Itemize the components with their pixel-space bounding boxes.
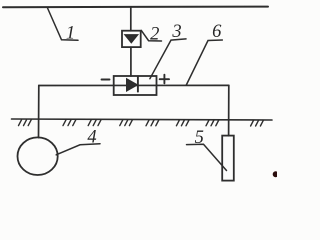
plus polarity mark	[160, 75, 169, 84]
earth electrode 5 (rod)	[222, 136, 234, 181]
arrester U2 (box with filled triangle)	[122, 31, 141, 47]
svg-text:4: 4	[87, 127, 96, 147]
ink speck bottom-right	[273, 171, 279, 177]
wire: overhead contact line (pos. 1)	[3, 6, 268, 9]
leader line for label 1	[48, 8, 79, 40]
earth hatching group 8	[251, 120, 264, 126]
earth electrode 4 (hemispherical earth plate, circle)	[17, 137, 57, 175]
minus polarity mark	[102, 79, 110, 81]
wire: left down-lead to earth electrode 4	[38, 86, 40, 138]
leader line for label 2	[141, 30, 161, 41]
svg-text:5: 5	[195, 128, 204, 148]
svg-text:2: 2	[150, 25, 159, 45]
wire: right down-lead to earth electrode 5	[228, 85, 230, 135]
leader line for label 4	[56, 144, 100, 155]
wire: dc feeder bus (pos. 6)	[39, 84, 229, 86]
earth hatching group 4	[120, 120, 133, 126]
leader line for label 3	[150, 39, 186, 79]
diode VD1 inside rectifier 3	[127, 76, 138, 91]
earth hatching group 7	[206, 120, 219, 126]
earth hatching group 1	[19, 120, 32, 126]
svg-text:3: 3	[171, 22, 181, 42]
svg-text:6: 6	[212, 22, 222, 42]
earth hatching group 6	[176, 120, 189, 126]
earth hatching group 5	[146, 120, 159, 126]
leader line for label 6	[186, 40, 222, 85]
leader line for label 5	[187, 144, 227, 170]
svg-text:1: 1	[66, 24, 75, 44]
wire: arrester 2 to rectifier 3	[130, 47, 132, 76]
earth surface line	[12, 119, 273, 120]
earth hatching group 3	[88, 120, 101, 126]
earth hatching group 2	[63, 120, 76, 126]
wire: drop from overhead line down to arrester 2	[130, 7, 132, 31]
rectifier U3 (box)	[114, 76, 157, 95]
